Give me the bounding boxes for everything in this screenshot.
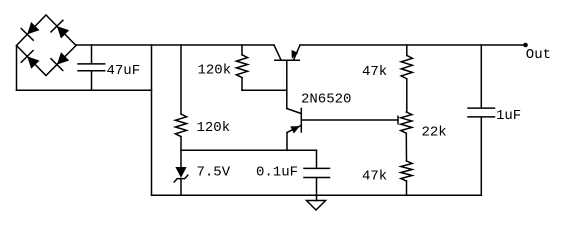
capacitor C1 47uF [78,45,105,90]
wire emitter line y=150.3 [181,149,317,151]
resistor R1 120k (upper) [236,45,247,90]
node Out terminal dot [523,43,528,48]
wire vertical x=151.5 [151,45,153,195]
svg-text:22k: 22k [422,125,447,141]
svg-text:2N6520: 2N6520 [301,91,351,107]
potentiometer wiper T-bar [397,116,399,123]
svg-text:120k: 120k [197,120,231,136]
svg-text:Out: Out [526,47,551,63]
wire bridge bottom [17,89,152,91]
potentiometer R4 22k [401,112,412,133]
wire left vertex down [16,46,18,91]
svg-text:0.1uF: 0.1uF [256,165,298,181]
diode D1 (top-left edge) [21,22,39,40]
capacitor C3 1uF [468,45,495,195]
diode D4 (bottom-right edge) [51,52,69,70]
transistor Q2 2N6520 [287,109,398,151]
bridge rectifier diamond [17,15,77,76]
svg-text:47k: 47k [362,64,387,80]
svg-text:47uF: 47uF [107,63,141,79]
svg-text:120k: 120k [198,63,232,79]
resistor R3 47k (upper) [401,45,412,112]
svg-text:1uF: 1uF [496,108,521,124]
resistor R5 47k (lower) [401,133,412,195]
resistor R2 120k (lower) [175,45,186,150]
diode D3 (bottom-left edge) [21,51,39,69]
svg-text:7.5V: 7.5V [197,165,231,181]
diode D2 (top-right edge) [51,20,69,38]
ground [307,201,326,211]
wire top rail left segment [76,44,274,46]
zener diode D5 7.5V [174,150,188,195]
wire bottom rail [152,194,482,196]
svg-text:47k: 47k [362,169,387,185]
transistor Q1 (top PNP pass transistor) [274,45,300,109]
capacitor C2 0.1uF [304,150,330,200]
wire top rail right segment [300,44,526,46]
wire R1 bottom to Q1 base lead [242,89,287,91]
